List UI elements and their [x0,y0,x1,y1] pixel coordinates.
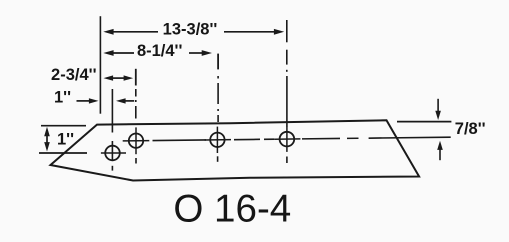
svg-text:1'': 1'' [54,88,71,106]
svg-text:1'': 1'' [57,131,74,149]
svg-text:7/8'': 7/8'' [455,120,486,138]
svg-text:2-3/4'': 2-3/4'' [51,66,97,84]
svg-text:13-3/8'': 13-3/8'' [163,20,218,38]
svg-text:O 16-4: O 16-4 [173,187,291,230]
svg-text:8-1/4'': 8-1/4'' [137,42,183,60]
